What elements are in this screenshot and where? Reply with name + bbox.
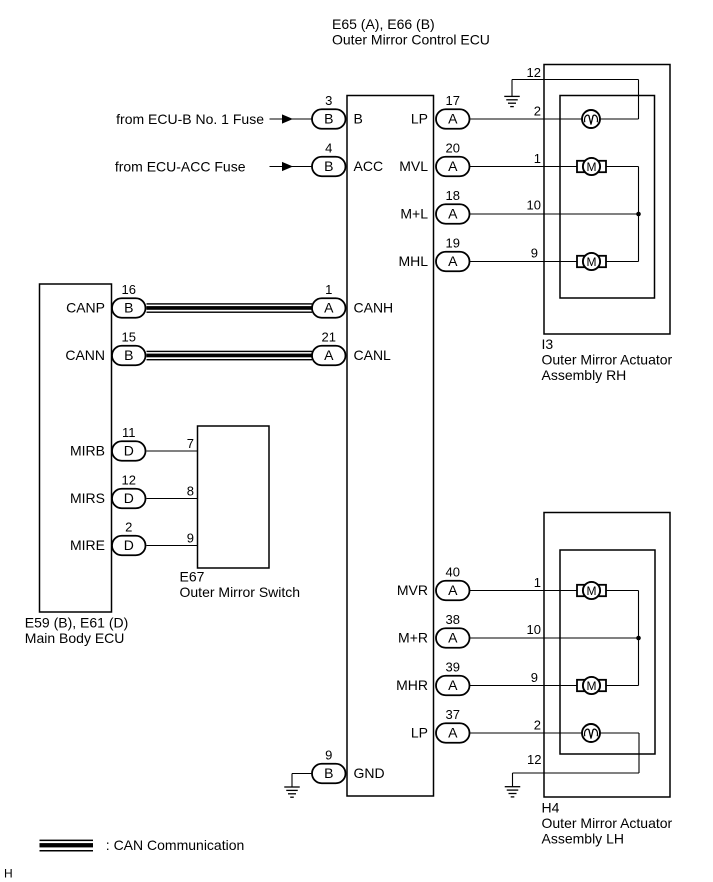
svg-text:B: B xyxy=(324,158,333,174)
svg-text:39: 39 xyxy=(446,660,460,675)
svg-text:9: 9 xyxy=(187,530,194,545)
svg-text:MIRE: MIRE xyxy=(70,537,105,553)
svg-text:8: 8 xyxy=(187,483,194,498)
svg-text:16: 16 xyxy=(122,282,136,297)
svg-text:CANL: CANL xyxy=(354,347,392,363)
svg-text:A: A xyxy=(324,300,334,316)
svg-text:from ECU-B No. 1 Fuse: from ECU-B No. 1 Fuse xyxy=(116,111,264,127)
svg-text:12: 12 xyxy=(527,752,541,767)
svg-text:A: A xyxy=(448,725,458,741)
svg-text:MIRS: MIRS xyxy=(70,490,105,506)
svg-text:2: 2 xyxy=(534,718,541,733)
svg-text:B: B xyxy=(324,111,333,127)
svg-text:40: 40 xyxy=(446,565,460,580)
svg-text:Main Body ECU: Main Body ECU xyxy=(25,630,125,646)
svg-text:10: 10 xyxy=(527,197,541,212)
svg-text:B: B xyxy=(354,111,363,127)
svg-text:7: 7 xyxy=(187,436,194,451)
svg-text:9: 9 xyxy=(531,245,538,260)
svg-text:M: M xyxy=(587,160,597,174)
svg-text:1: 1 xyxy=(325,282,332,297)
svg-text:ACC: ACC xyxy=(354,158,384,174)
svg-text:E67: E67 xyxy=(180,569,205,585)
svg-text:A: A xyxy=(448,677,458,693)
svg-text:M: M xyxy=(587,255,597,269)
svg-text:12: 12 xyxy=(122,473,136,488)
svg-text:11: 11 xyxy=(122,425,136,440)
svg-text:MVL: MVL xyxy=(399,158,428,174)
svg-text:A: A xyxy=(448,582,458,598)
svg-text:17: 17 xyxy=(446,93,460,108)
svg-text:M+L: M+L xyxy=(400,206,428,222)
svg-text:M: M xyxy=(587,584,597,598)
svg-text:A: A xyxy=(448,253,458,269)
svg-text:MHL: MHL xyxy=(398,253,428,269)
svg-text:A: A xyxy=(448,206,458,222)
svg-text:D: D xyxy=(124,537,134,553)
svg-text:LP: LP xyxy=(411,111,428,127)
svg-text:A: A xyxy=(448,158,458,174)
svg-text:E65 (A), E66 (B): E65 (A), E66 (B) xyxy=(332,16,435,32)
svg-text:Assembly LH: Assembly LH xyxy=(542,831,624,847)
svg-text:19: 19 xyxy=(446,236,460,251)
svg-text:MIRB: MIRB xyxy=(70,443,105,459)
svg-text:20: 20 xyxy=(446,141,460,156)
svg-text:1: 1 xyxy=(534,151,541,166)
svg-text:Outer Mirror Actuator: Outer Mirror Actuator xyxy=(542,815,673,831)
svg-text:LP: LP xyxy=(411,725,428,741)
svg-text:10: 10 xyxy=(527,622,541,637)
svg-text:B: B xyxy=(124,300,133,316)
svg-text:: CAN Communication: : CAN Communication xyxy=(106,837,245,853)
svg-text:Outer Mirror Actuator: Outer Mirror Actuator xyxy=(542,352,673,368)
svg-text:M: M xyxy=(587,679,597,693)
svg-text:Outer Mirror Control ECU: Outer Mirror Control ECU xyxy=(332,31,490,47)
svg-text:CANN: CANN xyxy=(65,347,105,363)
svg-text:3: 3 xyxy=(325,93,332,108)
svg-text:MHR: MHR xyxy=(396,677,428,693)
svg-text:H: H xyxy=(4,866,13,880)
svg-text:I3: I3 xyxy=(542,336,554,352)
svg-text:18: 18 xyxy=(446,188,460,203)
svg-text:D: D xyxy=(124,490,134,506)
svg-text:CANH: CANH xyxy=(354,300,394,316)
svg-text:15: 15 xyxy=(122,330,136,345)
svg-text:38: 38 xyxy=(446,612,460,627)
svg-text:A: A xyxy=(448,111,458,127)
svg-text:4: 4 xyxy=(325,141,332,156)
svg-text:21: 21 xyxy=(322,330,336,345)
svg-text:A: A xyxy=(324,347,334,363)
svg-text:GND: GND xyxy=(354,765,385,781)
svg-text:9: 9 xyxy=(531,670,538,685)
svg-text:M+R: M+R xyxy=(398,630,428,646)
svg-text:Outer Mirror Switch: Outer Mirror Switch xyxy=(180,584,301,600)
svg-text:A: A xyxy=(448,630,458,646)
svg-text:D: D xyxy=(124,443,134,459)
svg-text:1: 1 xyxy=(534,575,541,590)
svg-text:9: 9 xyxy=(325,748,332,763)
svg-text:B: B xyxy=(124,347,133,363)
svg-text:2: 2 xyxy=(534,104,541,119)
svg-text:2: 2 xyxy=(125,520,132,535)
svg-text:CANP: CANP xyxy=(66,300,105,316)
svg-text:H4: H4 xyxy=(542,800,560,816)
svg-text:12: 12 xyxy=(527,65,541,80)
svg-text:37: 37 xyxy=(446,707,460,722)
svg-text:B: B xyxy=(324,765,333,781)
svg-text:from ECU-ACC Fuse: from ECU-ACC Fuse xyxy=(115,158,246,174)
svg-text:Assembly RH: Assembly RH xyxy=(542,367,627,383)
svg-text:MVR: MVR xyxy=(397,582,428,598)
svg-text:E59 (B), E61 (D): E59 (B), E61 (D) xyxy=(25,614,128,630)
